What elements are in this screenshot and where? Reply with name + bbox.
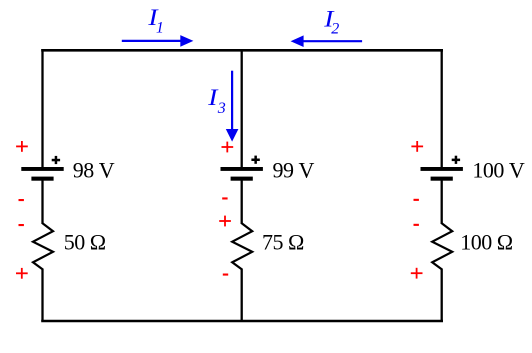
current arrow I2 (pointing left, on top-right bus): [291, 35, 363, 47]
polarity - (red) above resistor R3: [414, 224, 419, 226]
wire: right branch upper segment (top bus to battery V3): [441, 49, 443, 168]
polarity + (red) above resistor R2: [219, 216, 231, 227]
label: 100 Ohm: [460, 230, 513, 255]
wire: right branch middle segment (battery V3 to resistor R3): [441, 181, 443, 225]
svg-text:99 V: 99 V: [273, 157, 315, 182]
svg-text:100 V: 100 V: [472, 157, 525, 182]
battery V1 (98 V): [21, 167, 63, 181]
polarity + (red) above battery V1: [16, 141, 28, 152]
label: 99 V: [273, 157, 315, 182]
polarity + (black) at battery V1 positive plate: [52, 156, 60, 164]
wire: bottom bus from node BL to node BR: [41, 320, 443, 323]
polarity - (red) below battery V3: [414, 199, 419, 201]
svg-text:3: 3: [217, 100, 226, 117]
label: 98 V: [73, 157, 115, 182]
label: 100 V: [472, 157, 525, 182]
svg-text:75 Ω: 75 Ω: [262, 230, 304, 255]
resistor R1 (50 ohm): [33, 223, 53, 269]
label I3: [207, 85, 225, 117]
wire: top bus from node TL to node TR: [41, 49, 443, 52]
polarity + (red) above battery V2: [222, 142, 234, 153]
polarity + (red) below resistor R3: [411, 268, 423, 279]
polarity - (red) below resistor R2: [223, 274, 228, 276]
label: 50 Ohm: [64, 230, 106, 255]
current arrow I3 (pointing down, middle branch): [226, 71, 239, 142]
resistor R2 (75 ohm): [232, 223, 252, 269]
label I2: [323, 6, 339, 37]
polarity + (black) at battery V2 positive plate: [251, 156, 259, 164]
polarity + (black) at battery V3 positive plate: [452, 156, 460, 164]
wire: middle branch upper segment (top bus to battery V2): [241, 49, 243, 168]
polarity + (red) above battery V3: [411, 141, 423, 152]
battery V3 (100 V): [421, 167, 463, 181]
wire: middle branch lower segment (resistor R2 to bottom bus): [241, 269, 243, 322]
wire: right branch lower segment (resistor R3 to bottom bus): [441, 269, 443, 322]
current arrow I1 (pointing right, on top-left bus): [122, 35, 194, 47]
wire: middle branch middle segment (battery V2 to resistor R2): [241, 181, 243, 225]
svg-text:2: 2: [331, 21, 339, 38]
resistor R3 (100 ohm): [432, 223, 452, 269]
wire: left branch upper segment (top bus to battery V1): [41, 49, 43, 168]
svg-text:50 Ω: 50 Ω: [64, 230, 106, 255]
wire: left branch lower segment (resistor R1 to bottom bus): [41, 269, 43, 322]
polarity + (red) below resistor R1: [16, 268, 28, 279]
wire: left branch middle segment (battery V1 to resistor R1): [41, 181, 43, 225]
label I1: [147, 5, 164, 37]
svg-text:98 V: 98 V: [73, 157, 115, 182]
polarity - (red) below battery V1: [19, 199, 24, 201]
battery V2 (99 V): [221, 167, 263, 181]
svg-text:100 Ω: 100 Ω: [460, 230, 513, 255]
label: 75 Ohm: [262, 230, 304, 255]
polarity - (red) below battery V2: [222, 197, 227, 199]
polarity - (red) above resistor R1: [19, 224, 24, 226]
svg-text:1: 1: [156, 20, 164, 37]
